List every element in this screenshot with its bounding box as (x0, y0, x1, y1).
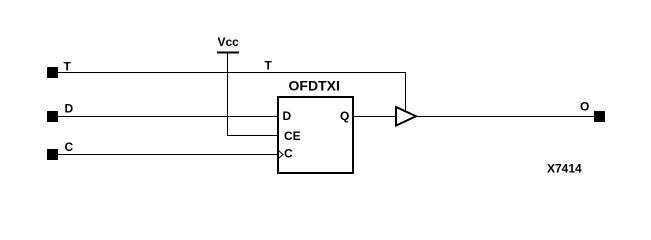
svg-text:T: T (64, 60, 72, 74)
pin T (47, 60, 72, 79)
svg-text:T: T (265, 59, 273, 73)
wire Vcc to CE (228, 54, 279, 136)
wire T (58, 73, 406, 112)
pin label Q (340, 109, 349, 123)
clock wedge (279, 151, 284, 159)
pin label C (284, 147, 293, 161)
power Vcc (217, 35, 239, 53)
svg-text:Vcc: Vcc (218, 35, 240, 49)
pin label CE (284, 129, 301, 143)
label X7414 (547, 162, 582, 176)
svg-text:C: C (65, 140, 74, 154)
svg-text:Q: Q (340, 109, 349, 123)
svg-text:C: C (284, 147, 293, 161)
wire D (58, 116, 278, 118)
svg-text:O: O (580, 100, 589, 114)
wire Q (354, 116, 396, 118)
svg-text:CE: CE (284, 129, 301, 143)
tristate buffer (396, 107, 416, 126)
pin O (580, 100, 605, 123)
svg-text:D: D (283, 109, 292, 123)
node T label (265, 59, 273, 73)
flip-flop U1 OFDTXI body (278, 78, 353, 174)
svg-text:X7414: X7414 (547, 162, 582, 176)
pin C (47, 140, 74, 160)
svg-text:D: D (65, 102, 74, 116)
pin D (47, 102, 74, 123)
wire O (416, 116, 594, 118)
pin label D (283, 109, 292, 123)
wire C (58, 154, 278, 156)
svg-text:OFDTXI: OFDTXI (289, 78, 340, 94)
